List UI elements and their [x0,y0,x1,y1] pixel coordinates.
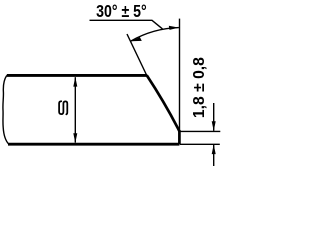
bevel edge [147,75,180,131]
plate bottom edge [8,143,179,146]
svg-text:30° ± 5°: 30° ± 5° [96,1,147,21]
angle dimension arc [131,28,179,41]
root dimension upper arrowhead (points down) [212,121,216,131]
svg-text:1,8 ± 0,8: 1,8 ± 0,8 [191,57,208,118]
root face [178,130,181,144]
root dimension lower arrowhead (points up) [212,144,216,154]
angle arc right arrowhead [169,26,179,30]
S dimension bottom arrowhead [73,133,77,143]
S dimension line [74,77,76,142]
bevel extension line above plate [127,34,148,77]
angle arc left arrowhead [131,37,142,41]
left break line [3,75,9,144]
S label [59,101,67,114]
root dimension line upper segment [213,103,215,131]
root face upper extension line [180,130,221,132]
angle vertical extension line [179,19,181,131]
angle dimension leader underline [90,20,163,29]
S dimension top arrowhead [73,77,77,87]
plate top edge [7,74,147,77]
root dimension line lower segment [213,145,215,166]
root face lower extension line [180,143,220,145]
